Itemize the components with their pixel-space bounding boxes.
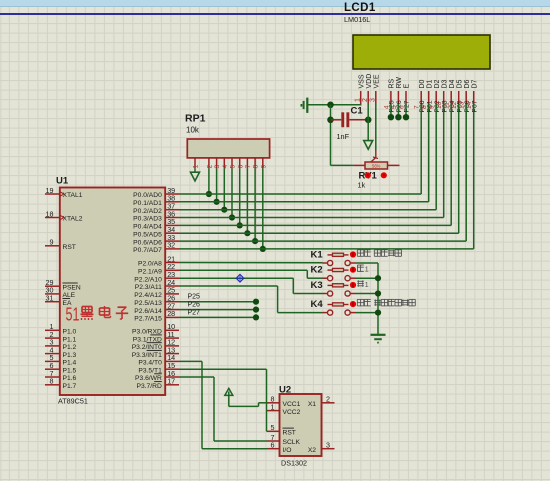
svg-text:D6: D6 (464, 79, 471, 88)
svg-text:9: 9 (260, 165, 267, 169)
svg-text:7: 7 (245, 165, 252, 169)
svg-text:P2.2/A10: P2.2/A10 (134, 276, 162, 283)
svg-text:P1.3: P1.3 (63, 352, 77, 359)
svg-text:SCLK: SCLK (283, 439, 301, 446)
svg-text:17: 17 (167, 377, 175, 386)
svg-text:31: 31 (46, 294, 54, 303)
svg-text:3: 3 (326, 441, 330, 450)
svg-text:7: 7 (414, 105, 421, 109)
svg-text:D4: D4 (449, 79, 456, 88)
svg-text:VDD: VDD (366, 74, 373, 89)
svg-text:18: 18 (46, 209, 54, 218)
svg-text:1: 1 (271, 402, 275, 411)
svg-text:1: 1 (193, 165, 200, 169)
svg-text:P3.7/RD: P3.7/RD (137, 383, 162, 390)
svg-text:6: 6 (271, 441, 275, 450)
svg-text:P2.0/A8: P2.0/A8 (138, 261, 162, 268)
svg-text:8: 8 (253, 165, 260, 169)
svg-text:2: 2 (326, 395, 330, 404)
svg-text:XTAL2: XTAL2 (63, 216, 83, 223)
svg-text:RS: RS (389, 78, 396, 88)
svg-text:P0.7/AD7: P0.7/AD7 (133, 247, 162, 254)
svg-text:1: 1 (365, 267, 369, 274)
svg-text:9: 9 (429, 105, 436, 109)
svg-text:D3: D3 (441, 79, 448, 88)
svg-text:DS1302: DS1302 (281, 459, 307, 468)
svg-text:5: 5 (230, 165, 237, 169)
svg-text:6: 6 (398, 105, 405, 109)
svg-text:AT89C51: AT89C51 (58, 397, 88, 406)
svg-text:3: 3 (214, 165, 221, 169)
svg-text:D7: D7 (471, 79, 478, 88)
svg-text:28: 28 (167, 309, 175, 318)
svg-text:1: 1 (355, 98, 362, 102)
svg-text:RST: RST (63, 244, 76, 251)
svg-text:P1.1: P1.1 (63, 336, 77, 343)
svg-text:P0.6/AD6: P0.6/AD6 (133, 239, 162, 246)
svg-text:P2.5/A13: P2.5/A13 (134, 300, 162, 307)
svg-text:P0.0/AD0: P0.0/AD0 (133, 192, 162, 199)
svg-text:2: 2 (207, 165, 214, 169)
svg-text:5: 5 (271, 423, 275, 432)
svg-text:2: 2 (362, 98, 369, 102)
svg-text:1k: 1k (358, 181, 366, 190)
svg-text:32: 32 (167, 241, 175, 250)
svg-text:P3.4/T0: P3.4/T0 (138, 360, 162, 367)
svg-text:RP1: RP1 (185, 113, 206, 125)
svg-text:U1: U1 (56, 176, 69, 187)
svg-text:10: 10 (436, 101, 443, 109)
svg-text:14: 14 (466, 101, 473, 109)
svg-text:P1.0: P1.0 (63, 329, 77, 336)
svg-text:D1: D1 (426, 79, 433, 88)
svg-text:1: 1 (365, 282, 369, 289)
svg-text:VSS: VSS (358, 74, 365, 88)
svg-text:K3: K3 (311, 280, 323, 291)
svg-text:11: 11 (444, 102, 451, 109)
svg-text:13: 13 (459, 101, 466, 109)
svg-text:K2: K2 (311, 265, 323, 276)
svg-text:6: 6 (237, 165, 244, 169)
svg-text:P0.2/AD2: P0.2/AD2 (133, 208, 162, 215)
svg-text:C1: C1 (351, 106, 364, 117)
svg-text:P1.7: P1.7 (63, 383, 77, 390)
svg-text:P1.2: P1.2 (63, 344, 77, 351)
svg-text:P2.7/A15: P2.7/A15 (134, 316, 162, 323)
svg-text:P0.3/AD3: P0.3/AD3 (133, 216, 162, 223)
svg-text:19: 19 (46, 186, 54, 195)
svg-text:8: 8 (50, 377, 54, 386)
svg-text:P1.5: P1.5 (63, 367, 77, 374)
svg-text:X2: X2 (308, 447, 316, 454)
svg-text:P1.4: P1.4 (63, 360, 77, 367)
svg-text:P27: P27 (188, 309, 201, 316)
svg-text:D2: D2 (434, 79, 441, 88)
svg-text:12: 12 (451, 101, 458, 109)
svg-text:P0.1/AD1: P0.1/AD1 (133, 200, 162, 207)
svg-text:P26: P26 (188, 302, 201, 309)
svg-text:3: 3 (370, 98, 377, 102)
svg-text:8: 8 (421, 105, 428, 109)
svg-text:VCC2: VCC2 (283, 409, 301, 416)
svg-text:P0.5/AD5: P0.5/AD5 (133, 231, 162, 238)
svg-text:P2.4/A12: P2.4/A12 (134, 292, 162, 299)
svg-text:P0.4/AD4: P0.4/AD4 (133, 224, 162, 231)
svg-text:D0: D0 (419, 79, 426, 88)
svg-text:VCC1: VCC1 (283, 401, 301, 408)
svg-text:RW: RW (396, 77, 403, 89)
svg-text:P2.6/A14: P2.6/A14 (134, 308, 162, 315)
svg-text:9: 9 (50, 238, 54, 247)
svg-text:51: 51 (66, 304, 80, 325)
svg-text:D5: D5 (456, 79, 463, 88)
svg-text:RST: RST (283, 430, 296, 437)
svg-text:K1: K1 (311, 249, 324, 260)
svg-text:K4: K4 (311, 299, 324, 310)
svg-text:VEE: VEE (373, 74, 380, 88)
svg-text:I/O: I/O (283, 447, 292, 454)
svg-text:56%: 56% (372, 164, 381, 169)
svg-text:P2.1/A9: P2.1/A9 (138, 269, 162, 276)
svg-text:10k: 10k (186, 126, 200, 135)
svg-text:P3.3/INT1: P3.3/INT1 (132, 352, 162, 359)
svg-text:PSEN: PSEN (63, 284, 81, 291)
svg-text:P1.6: P1.6 (63, 375, 77, 382)
svg-text:4: 4 (222, 165, 229, 169)
svg-text:1nF: 1nF (337, 132, 350, 141)
svg-text:P2.3/A11: P2.3/A11 (135, 284, 162, 291)
svg-text:X1: X1 (308, 401, 316, 408)
svg-text:XTAL1: XTAL1 (63, 192, 83, 199)
svg-text:P25: P25 (188, 294, 201, 301)
svg-text:E: E (404, 84, 411, 89)
svg-text:5: 5 (391, 105, 398, 109)
svg-text:4: 4 (383, 105, 390, 109)
